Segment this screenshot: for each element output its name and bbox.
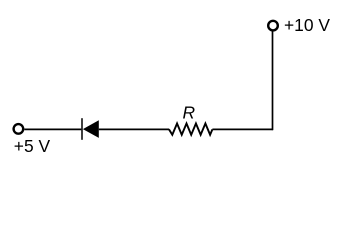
wire diode to resistor	[99, 128, 169, 130]
terminal T1 (+5 V input)	[14, 124, 24, 134]
terminal T2 (+10 V supply)	[268, 21, 278, 31]
resistor R zigzag	[169, 124, 212, 135]
svg-text:R: R	[183, 103, 196, 123]
diode D1 cathode bar	[81, 118, 83, 140]
svg-text:+10 V: +10 V	[284, 15, 330, 35]
diode D1 anode triangle	[83, 120, 99, 138]
svg-text:+5 V: +5 V	[14, 136, 51, 156]
wire corner up to terminal T2	[272, 31, 274, 130]
wire resistor to corner	[212, 128, 273, 130]
wire T1 to diode cathode	[24, 128, 81, 130]
